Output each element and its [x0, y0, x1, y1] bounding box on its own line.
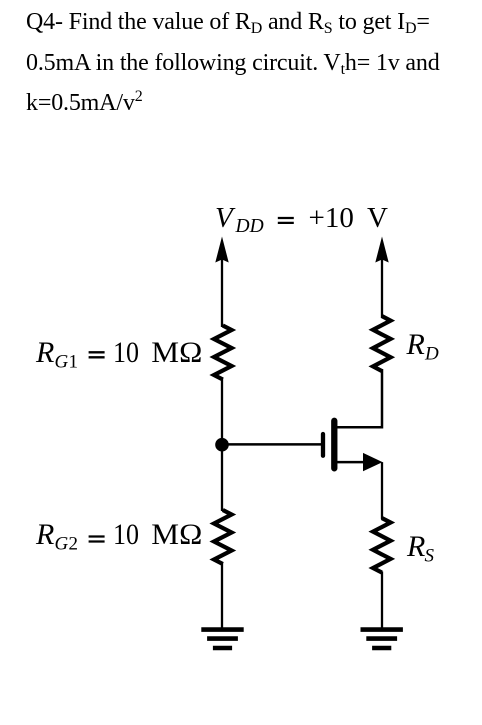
label RG1 = 10 MOhm	[35, 336, 202, 373]
wire source vertical	[381, 462, 383, 519]
wire right branch lower	[381, 572, 383, 630]
svg-text:G: G	[55, 352, 69, 373]
label RD	[406, 328, 440, 365]
svg-text:D: D	[424, 344, 439, 365]
svg-text:G: G	[55, 534, 69, 555]
wire gate	[222, 443, 321, 446]
svg-text:V: V	[367, 202, 388, 234]
wire left branch lower	[221, 563, 223, 630]
wire left branch middle	[221, 378, 223, 511]
wire source horizontal	[336, 461, 370, 464]
question text line 3	[26, 91, 143, 115]
label RG2 = 10 MOhm	[35, 518, 202, 555]
svg-text:R: R	[406, 530, 425, 563]
svg-text:MΩ: MΩ	[151, 336, 202, 369]
label RS	[406, 530, 435, 567]
question text line 2	[26, 51, 440, 75]
svg-text:10: 10	[113, 336, 139, 369]
svg-text:V: V	[215, 202, 236, 234]
svg-text:+10: +10	[309, 202, 354, 234]
transistor Q1 source arrow	[363, 453, 383, 471]
wire right branch upper	[381, 252, 383, 318]
transistor Q1 channel bar	[331, 421, 337, 469]
svg-text:1: 1	[69, 352, 79, 373]
svg-text:MΩ: MΩ	[151, 518, 202, 551]
svg-text:DD: DD	[235, 216, 264, 237]
ground right	[361, 630, 403, 648]
transistor Q1 gate bar	[321, 434, 325, 456]
resistor RD	[373, 316, 391, 371]
svg-text:R: R	[35, 336, 54, 369]
VDD arrow right	[375, 237, 388, 263]
label VDD = +10 V	[215, 202, 388, 237]
svg-text:R: R	[35, 518, 54, 551]
ground left	[201, 630, 243, 648]
svg-text:R: R	[406, 328, 425, 361]
svg-text:2: 2	[69, 534, 79, 555]
svg-text:S: S	[425, 546, 435, 567]
wire drain	[336, 369, 382, 427]
resistor RG1	[214, 326, 232, 380]
resistor RG2	[214, 510, 232, 564]
VDD arrow left	[215, 237, 228, 263]
node A (gate node junction dot)	[215, 438, 229, 452]
wire left branch upper	[221, 252, 223, 327]
resistor RS	[373, 518, 391, 573]
question text line 1	[26, 10, 430, 34]
svg-text:10: 10	[113, 518, 139, 551]
